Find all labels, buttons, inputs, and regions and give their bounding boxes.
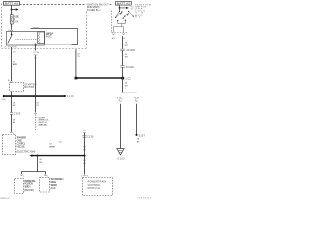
svg-text:18: 18: [49, 143, 52, 145]
svg-text:14: 14: [77, 53, 80, 55]
svg-text:1 C2: 1 C2: [125, 79, 131, 81]
svg-text:C209: C209: [14, 114, 21, 116]
svg-text:BK: BK: [137, 141, 140, 143]
svg-text:G100: G100: [1, 99, 5, 101]
svg-text:K: K: [81, 175, 83, 177]
svg-text:C130: C130: [87, 137, 94, 139]
svg-text:WT: WT: [125, 45, 129, 47]
svg-text:MOTOR: MOTOR: [24, 86, 34, 89]
svg-text:1: 1: [23, 176, 24, 178]
svg-text:(RUN-START): (RUN-START): [87, 6, 100, 9]
svg-text:IGNITION SW OUT: IGNITION SW OUT: [87, 4, 109, 6]
svg-text:10A: 10A: [14, 20, 19, 23]
svg-text:BATT A0: BATT A0: [5, 3, 19, 6]
svg-text:RELAY: RELAY: [34, 26, 40, 29]
svg-text:85: 85: [8, 46, 10, 48]
svg-text:A21: A21: [112, 37, 116, 40]
svg-text:BK: BK: [83, 150, 86, 152]
svg-text:G103: G103: [117, 158, 125, 160]
svg-text:18: 18: [39, 159, 42, 161]
svg-text:18: 18: [83, 160, 86, 162]
svg-text:S110: S110: [67, 96, 75, 98]
svg-text:BK/RD: BK/RD: [13, 64, 18, 66]
svg-text:(PDC): (PDC): [46, 37, 52, 39]
svg-text:VT: VT: [36, 105, 39, 107]
svg-text:(4X4): (4X4): [50, 187, 55, 190]
svg-text:8W2132: 8W2132: [1, 198, 10, 200]
svg-text:18: 18: [34, 58, 36, 60]
svg-text:FUSED B(+): FUSED B(+): [87, 10, 101, 12]
svg-text:YL: YL: [77, 56, 80, 58]
svg-text:05918312: 05918312: [138, 198, 152, 200]
svg-text:(4X2 ONLY): (4X2 ONLY): [24, 189, 34, 192]
svg-text:A1 C100: A1 C100: [126, 49, 135, 52]
svg-text:BK/WH: BK/WH: [49, 147, 55, 149]
svg-text:87A: 87A: [13, 45, 17, 48]
svg-text:ST: ST: [131, 8, 134, 10]
svg-text:4X4: 4X4: [59, 141, 62, 143]
svg-text:BK: BK: [39, 162, 42, 164]
svg-text:WT: WT: [125, 57, 129, 59]
svg-text:18: 18: [83, 146, 86, 148]
svg-text:BK: BK: [83, 163, 86, 165]
svg-text:MODULE: MODULE: [88, 187, 101, 190]
svg-text:BK: BK: [13, 105, 16, 107]
svg-text:T41: T41: [13, 51, 16, 53]
svg-text:B: B: [5, 46, 7, 48]
svg-text:ST: ST: [135, 17, 141, 19]
svg-text:S157: S157: [139, 136, 146, 138]
svg-text:(MANUAL): (MANUAL): [38, 123, 47, 126]
svg-text:B C100: B C100: [126, 67, 134, 69]
svg-text:BK: BK: [13, 122, 16, 124]
svg-text:20: 20: [125, 83, 128, 85]
svg-text:(ELECTRIC 4X4): (ELECTRIC 4X4): [17, 150, 36, 153]
svg-text:BATT A2: BATT A2: [117, 3, 131, 6]
svg-text:1: 1: [125, 88, 126, 90]
svg-text:MODULE: MODULE: [17, 146, 26, 149]
